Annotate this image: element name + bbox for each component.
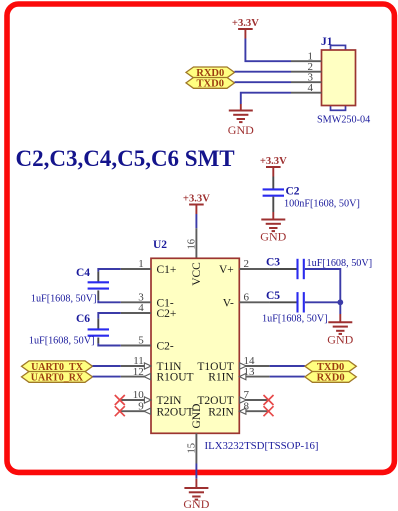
svg-text:R2OUT: R2OUT	[157, 406, 194, 418]
pin C4 bottom	[97, 290, 99, 300]
wire GND rail down	[339, 302, 341, 314]
pin direction arrow (T1IN input)	[144, 363, 151, 369]
svg-text:1uF[1608, 50V]: 1uF[1608, 50V]	[29, 336, 95, 347]
designator C4	[76, 267, 90, 279]
capacitor C6 plates	[88, 329, 109, 335]
svg-text:16: 16	[187, 239, 198, 250]
svg-text:1uF[1608, 50V]: 1uF[1608, 50V]	[307, 258, 373, 269]
wire U2 pin4 to C6	[98, 313, 120, 319]
pin U2.5 C2-	[121, 335, 174, 353]
svg-text:C5: C5	[266, 290, 280, 302]
pin direction arrow (R1IN input)	[239, 374, 246, 380]
ground GND (C2)	[260, 220, 286, 244]
svg-text:R2IN: R2IN	[208, 406, 234, 418]
svg-text:10: 10	[133, 389, 145, 401]
capacitor C5 plates	[298, 292, 304, 312]
pin C5 left	[270, 301, 298, 303]
pin C6 bottom	[97, 338, 99, 344]
port RXD0 (top)	[186, 67, 235, 79]
value 1uF[1608, 50V] (C3)	[307, 258, 373, 269]
ground GND (bottom)	[183, 488, 209, 511]
pin U2.4 C2+	[121, 302, 177, 320]
pin U2.10 T2IN	[121, 389, 182, 407]
port TXD0 (top)	[186, 78, 235, 90]
svg-text:+3.3V: +3.3V	[260, 156, 287, 167]
pin U2.1 C1+	[121, 258, 177, 276]
pin name GND	[191, 404, 203, 429]
wire C6 to U2 pin5	[98, 343, 120, 345]
wire C3 to GND rail	[305, 269, 340, 302]
pin J1.1	[291, 50, 322, 62]
svg-text:6: 6	[244, 292, 250, 304]
capacitor C3 plates	[298, 259, 304, 279]
svg-text:TXD0: TXD0	[197, 79, 224, 90]
svg-text:RXD0: RXD0	[317, 373, 345, 384]
svg-text:SMW250-04: SMW250-04	[317, 115, 370, 126]
svg-text:ILX3232TSD[TSSOP-16]: ILX3232TSD[TSSOP-16]	[205, 440, 319, 452]
svg-text:+3.3V: +3.3V	[232, 18, 259, 29]
no-connect X (U2 pin 8)	[264, 406, 274, 416]
pin J1.2	[291, 61, 322, 73]
svg-text:C2,C3,C4,C5,C6 SMT: C2,C3,C4,C5,C6 SMT	[16, 146, 235, 171]
pin C2 bottom	[272, 197, 274, 212]
wire C5 to GND rail	[305, 301, 340, 303]
pin direction arrow (T1OUT output)	[240, 363, 247, 369]
wire C4 to U2 pin3	[98, 300, 120, 302]
pin direction arrow (R2OUT output)	[144, 408, 151, 414]
junction C3/C5 GND node	[337, 299, 343, 305]
value 1uF[1608, 50V] (C5)	[262, 314, 328, 325]
designator C3	[266, 257, 280, 269]
pin U2.9 R2OUT	[121, 400, 194, 418]
pin U2.11 T1IN	[121, 355, 182, 373]
no-connect X (U2 pin 7)	[264, 395, 274, 405]
svg-text:GND: GND	[228, 123, 254, 137]
capacitor C2 plates	[263, 189, 284, 195]
svg-text:R1OUT: R1OUT	[157, 372, 194, 384]
svg-text:VCC: VCC	[191, 262, 203, 286]
svg-text:1: 1	[138, 258, 144, 270]
pin U2.16 VCC	[187, 228, 198, 258]
svg-text:+3.3V: +3.3V	[183, 193, 210, 204]
wire U2 pin 13 to RXD0	[270, 376, 305, 378]
svg-text:C2+: C2+	[157, 308, 177, 320]
designator J1	[321, 36, 333, 48]
power +3.3V (J1 net)	[232, 18, 259, 39]
designator C2	[286, 186, 300, 198]
port RXD0 (right)	[305, 372, 356, 384]
wire U2 pin1 to C4	[98, 269, 120, 272]
svg-text:12: 12	[133, 366, 144, 378]
svg-text:T2OUT: T2OUT	[197, 395, 233, 407]
wire GND stub (C3/C5)	[339, 314, 341, 322]
svg-text:15: 15	[187, 443, 198, 454]
svg-text:V-: V-	[223, 297, 234, 309]
svg-text:R1IN: R1IN	[208, 372, 234, 384]
svg-text:C1+: C1+	[157, 264, 177, 276]
pin C6 top	[97, 319, 99, 329]
svg-text:C2: C2	[286, 186, 300, 198]
port UART0_RX	[22, 372, 93, 384]
pin J1.4	[291, 82, 322, 94]
pin U2.8 R2IN	[208, 400, 269, 418]
pin direction arrow (T2IN input)	[144, 397, 151, 403]
pin J1.3	[291, 71, 322, 83]
power +3.3V (U2 VCC net)	[183, 193, 210, 214]
power +3.3V (C2 net)	[260, 156, 287, 177]
svg-text:GND: GND	[327, 332, 353, 346]
pin U2.14 T1OUT	[197, 355, 269, 373]
svg-text:1uF[1608, 50V]: 1uF[1608, 50V]	[262, 314, 328, 325]
pin direction arrow (R2IN input)	[239, 408, 246, 414]
svg-text:2: 2	[244, 258, 250, 270]
port UART0_TX	[22, 361, 93, 373]
value ILX3232TSD[TSSOP-16]	[205, 440, 319, 452]
svg-text:100nF[1608, 50V]: 100nF[1608, 50V]	[284, 199, 360, 210]
pin U2.7 T2OUT	[197, 389, 269, 407]
ground GND (C3/C5)	[327, 322, 353, 346]
value 1uF[1608, 50V] (C6)	[29, 336, 95, 347]
wire UART0_RX to U2 pin 12	[93, 376, 121, 378]
pin U2.13 R1IN	[208, 366, 269, 384]
wire +3.3V to J1 pin 1	[245, 39, 291, 62]
note text C2,C3,C4,C5,C6 SMT	[16, 146, 235, 171]
no-connect X (U2 pin 9)	[115, 406, 125, 416]
pin direction arrow (T2OUT output)	[240, 397, 247, 403]
wire U2 pin 14 to TXD0	[270, 365, 305, 367]
svg-text:GND: GND	[260, 230, 286, 244]
ground GND (J1)	[228, 111, 254, 138]
pin C4 top	[97, 272, 99, 282]
op-amp U2 body (ILX3232TSD)	[151, 258, 239, 433]
svg-text:GND: GND	[183, 497, 209, 511]
svg-text:5: 5	[138, 335, 144, 347]
value SMW250-04	[317, 115, 370, 126]
wire TXD0 to J1 pin 3	[235, 81, 292, 83]
pin U2.6 V-	[223, 292, 270, 310]
wire GND stub (bottom)	[195, 479, 197, 488]
wire J1 pin 4 to GND	[241, 93, 291, 104]
wire GND stub (C2)	[272, 212, 274, 220]
svg-text:J1: J1	[321, 36, 333, 48]
svg-text:UART0_RX: UART0_RX	[31, 373, 84, 384]
pin C3 left	[270, 268, 298, 270]
value 100nF[1608, 50V]	[284, 199, 360, 210]
designator U2	[153, 239, 167, 251]
svg-text:C3: C3	[266, 257, 280, 269]
svg-text:C4: C4	[76, 267, 90, 279]
value 1uF[1608, 50V] (C4)	[31, 294, 97, 305]
pin direction arrow (R1OUT output)	[144, 374, 151, 380]
svg-text:4: 4	[308, 82, 314, 94]
svg-text:U2: U2	[153, 239, 167, 251]
svg-text:T2IN: T2IN	[157, 395, 183, 407]
connector J1 body	[322, 45, 356, 110]
designator C5	[266, 290, 280, 302]
wire GND stub (J1)	[240, 104, 242, 111]
svg-text:9: 9	[138, 400, 144, 412]
pin U2.15 GND	[187, 433, 198, 463]
wire/pin +3.3V to C2	[272, 177, 274, 189]
port TXD0 (right)	[305, 361, 356, 373]
wire +3.3V to U2 pin 16	[195, 214, 197, 228]
designator C6	[76, 313, 90, 325]
svg-text:C2-: C2-	[157, 341, 174, 353]
pin U2.3 C1-	[121, 292, 174, 310]
pin U2.2 V+	[219, 258, 270, 276]
svg-text:V+: V+	[219, 264, 234, 276]
wire RXD0 to J1 pin 2	[235, 71, 292, 73]
no-connect X (U2 pin 10)	[115, 395, 125, 405]
wire UART0_TX to U2 pin 11	[93, 365, 121, 367]
wire U2 pin 15 to GND	[195, 464, 197, 479]
svg-text:1uF[1608, 50V]: 1uF[1608, 50V]	[31, 294, 97, 305]
svg-text:C6: C6	[76, 313, 90, 325]
pin name VCC	[191, 262, 203, 286]
svg-text:4: 4	[138, 302, 144, 314]
pin U2.12 R1OUT	[121, 366, 194, 384]
capacitor C4 plates	[88, 282, 109, 288]
